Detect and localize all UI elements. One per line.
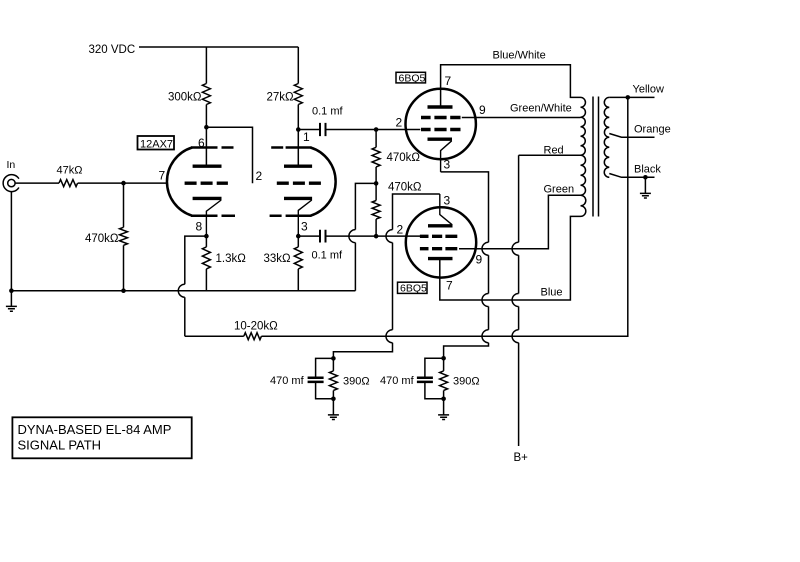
svg-text:8: 8 (196, 220, 203, 234)
ground input (6, 291, 17, 312)
svg-text:Orange: Orange (634, 124, 671, 136)
capacitor C3 plates (308, 378, 324, 382)
wire lower grid junction to V3 pin2 (376, 235, 420, 237)
svg-text:47kΩ: 47kΩ (57, 165, 83, 177)
tube U1a cathode (193, 197, 222, 200)
tube U1a plate (193, 164, 222, 167)
tube V2 envelope (406, 89, 476, 159)
svg-text:DYNA-BASED EL-84 AMP: DYNA-BASED EL-84 AMP (18, 422, 172, 437)
title box (12, 417, 191, 458)
svg-text:Blue/White: Blue/White (493, 50, 546, 62)
hop V2 pin3 over blue (482, 294, 489, 307)
svg-text:300kΩ: 300kΩ (168, 92, 202, 104)
hop red over green (512, 242, 519, 255)
wire plate lead pin1 (297, 130, 299, 165)
node RC2 top dot (441, 356, 446, 361)
svg-text:7: 7 (446, 279, 453, 293)
svg-text:2: 2 (256, 169, 263, 183)
ground RC1 (328, 399, 339, 420)
resistor R 33k (294, 247, 302, 269)
svg-text:470kΩ: 470kΩ (387, 152, 421, 164)
svg-text:3: 3 (444, 158, 451, 172)
wire RC1 top to cap (316, 358, 334, 376)
wire 33k to bus (297, 269, 299, 291)
connector J1 input jack inner (8, 179, 15, 186)
svg-text:Green: Green (544, 184, 575, 196)
wire C3 bottom (316, 383, 334, 399)
wire junction to 470k (123, 183, 125, 227)
wire grid junction to V2 pin2 (376, 129, 420, 131)
tube U1b envelope right arc (311, 148, 336, 216)
wire V2 pin9 to Green/White (462, 117, 581, 119)
wire pin3 to C2 (298, 235, 319, 237)
tube V2 cathode hook (441, 141, 452, 172)
tube U1b cathode (284, 197, 312, 200)
tube U1b plate (284, 164, 312, 167)
wire grid bias return to ground bus with hop (349, 183, 376, 290)
wire 470k upper to mid junction (375, 167, 377, 184)
svg-text:1: 1 (303, 130, 310, 144)
node pin8 dot (204, 234, 209, 239)
svg-text:0.1 mf: 0.1 mf (312, 106, 344, 118)
wire 300k bottom to plate junction (205, 105, 207, 128)
wire Black tap (609, 174, 654, 178)
node black junction dot (643, 175, 648, 180)
hop red over blue (512, 294, 519, 307)
resistor R 470k upper (372, 147, 380, 167)
wire RC1 top to resistor (332, 358, 334, 371)
wire C1 to grid junction (326, 129, 376, 131)
tube U1b envelope top (271, 146, 311, 149)
resistor R feedback 10-20k (244, 333, 262, 340)
svg-text:9: 9 (479, 103, 486, 117)
tube V3 6BQ5 label box (398, 282, 428, 293)
wire RC2 top to cap (425, 358, 444, 377)
node lower grid junction dot (374, 234, 379, 239)
tube V2 grid2 row (421, 128, 461, 131)
wire pin1 to C1 (298, 129, 319, 131)
node pin3 dot (296, 234, 301, 239)
svg-text:3: 3 (301, 220, 308, 234)
svg-text:470kΩ: 470kΩ (388, 182, 422, 194)
wire C4 bottom (425, 383, 444, 399)
svg-text:Red: Red (544, 145, 564, 157)
wire C2 to lower grid junction (326, 235, 376, 237)
capacitor C2 plates (320, 230, 326, 243)
wire pin8 feedback leg with hop over bus (178, 236, 206, 336)
tube V3 envelope (406, 207, 476, 277)
svg-text:B+: B+ (514, 452, 529, 464)
svg-text:3: 3 (444, 194, 451, 208)
svg-text:2: 2 (397, 223, 404, 237)
wire plate lead pin6 (205, 127, 207, 165)
resistor R 390 second (440, 371, 448, 391)
tube U1a grid (185, 181, 228, 184)
hop red over feedback (512, 330, 519, 343)
tube U1b grid (277, 181, 321, 184)
wire 390 to bottom node (332, 391, 334, 399)
wire V3 pin7 to Blue (440, 216, 581, 300)
tube V3 plate (428, 257, 453, 260)
wire Red B+ drop with hops (518, 155, 520, 446)
connector J1 input jack outer (3, 175, 19, 192)
wire V2 pin3 to RC2 (441, 172, 489, 358)
ground secondary (640, 177, 651, 198)
transformer T1 core (593, 97, 599, 217)
hop V3 pin3 over grid line (386, 230, 393, 243)
node pin1 junction dot (296, 127, 301, 132)
wire B+ rail 320VDC (139, 46, 298, 48)
svg-text:0.1 mf: 0.1 mf (312, 250, 344, 262)
wire 470k lower to lower grid junction (375, 219, 377, 236)
tube V2 cathode (428, 137, 453, 140)
wire junction to pin2 drop (206, 127, 252, 183)
node mid 470k junction dot (374, 181, 379, 186)
svg-text:Black: Black (634, 164, 661, 176)
tube U1b cathode hook (298, 200, 312, 236)
node plate1 junction dot (204, 125, 209, 130)
wire 390 second to bottom node (443, 391, 445, 399)
svg-text:9: 9 (476, 253, 483, 267)
wire RC2 top to resistor (443, 358, 445, 371)
ground RC2 (438, 399, 449, 420)
svg-text:In: In (7, 159, 16, 171)
wire Yellow tap (609, 96, 654, 98)
svg-text:Green/White: Green/White (510, 103, 572, 115)
svg-text:6BQ5: 6BQ5 (400, 283, 427, 295)
wire junction to 470k upper (375, 130, 377, 148)
tube V3 grid1 row (420, 235, 457, 238)
tube V3 cathode hook (440, 194, 452, 225)
svg-text:27kΩ: 27kΩ (267, 92, 295, 104)
svg-text:Blue: Blue (541, 287, 563, 299)
transformer T1 secondary winding (604, 97, 609, 177)
resistor R 27k (294, 84, 302, 105)
svg-text:470kΩ: 470kΩ (85, 233, 119, 245)
capacitor C1 plates (320, 123, 326, 136)
wire mid junction to 470k lower (375, 183, 377, 200)
wire V3 pin3 to RC1 (333, 194, 439, 358)
wire ground bus (11, 290, 355, 292)
tube U1a envelope top (191, 146, 234, 149)
tube U1a envelope bottom (191, 214, 235, 217)
tube U1a cathode hook (206, 200, 221, 236)
tube V3 cathode (428, 224, 453, 227)
hop V3 pin3 over feedback (386, 330, 393, 343)
wire pin3 to 33k (297, 236, 299, 247)
tube U1b envelope bottom (270, 214, 312, 217)
resistor R 47k (59, 180, 78, 187)
svg-text:33kΩ: 33kΩ (264, 253, 292, 265)
svg-text:SIGNAL PATH: SIGNAL PATH (18, 438, 102, 453)
svg-text:6BQ5: 6BQ5 (399, 73, 426, 85)
tube U1 12AX7 label box (138, 136, 175, 150)
tube V3 grid2 row (420, 247, 457, 250)
svg-text:10-20kΩ: 10-20kΩ (234, 321, 278, 333)
svg-text:470 mf: 470 mf (380, 375, 415, 387)
wire Red tap (519, 154, 581, 156)
capacitor C4 plates (417, 378, 433, 382)
resistor R 470k lower (372, 201, 380, 220)
wire feedback line to output tap (261, 97, 627, 336)
svg-text:390Ω: 390Ω (343, 376, 370, 388)
tube U1a envelope left arc (167, 148, 192, 216)
svg-text:470 mf: 470 mf (270, 375, 305, 387)
node RC1 bottom dot (331, 397, 336, 402)
wire 47k to grid pin7 (78, 182, 167, 184)
wire jack stem (10, 192, 12, 291)
tube V2 6BQ5 label box (396, 72, 426, 83)
tube V2 plate (428, 105, 453, 108)
wire feedback left segment (185, 335, 244, 337)
node RC2 bottom dot (441, 397, 446, 402)
wire pin8 to 1.3k (205, 236, 207, 247)
svg-text:320 VDC: 320 VDC (89, 44, 136, 56)
svg-text:7: 7 (445, 74, 452, 88)
svg-text:2: 2 (396, 116, 403, 130)
svg-text:Yellow: Yellow (633, 84, 664, 96)
wire rail drop to 27k (297, 47, 299, 84)
svg-text:1.3kΩ: 1.3kΩ (216, 253, 247, 265)
node bus dot jack (9, 288, 14, 293)
wire 1.3k to bus (205, 269, 207, 291)
hop V2 pin3 over feedback (482, 330, 489, 343)
resistor R 470k input (120, 227, 128, 245)
node bus dot 470k (121, 288, 126, 293)
node yellow junction dot (626, 95, 631, 100)
node upper grid junction dot (374, 127, 379, 132)
wire Orange tap (609, 134, 654, 138)
hop V2 pin3 over green (482, 242, 489, 255)
node RC1 top dot (331, 356, 336, 361)
wire V2 pin7 to Blue/White (441, 65, 581, 107)
wire jack to 47k (15, 182, 59, 184)
wire 470k to ground bus (123, 245, 125, 290)
svg-text:7: 7 (159, 169, 166, 183)
wire 27k bottom to pin1 (297, 105, 299, 130)
resistor R 390 first (329, 371, 337, 391)
svg-text:390Ω: 390Ω (453, 376, 480, 388)
wire rail drop to 300k (205, 47, 207, 84)
transformer T1 primary winding (581, 97, 586, 216)
node grid junction dot (121, 181, 126, 186)
wire V3 pin9 to Green (459, 195, 581, 249)
svg-text:12AX7: 12AX7 (140, 138, 173, 150)
svg-text:6: 6 (198, 136, 205, 150)
resistor R 1.3k (202, 247, 210, 269)
resistor R 300k (202, 84, 210, 105)
tube V2 grid1 row (421, 116, 461, 119)
